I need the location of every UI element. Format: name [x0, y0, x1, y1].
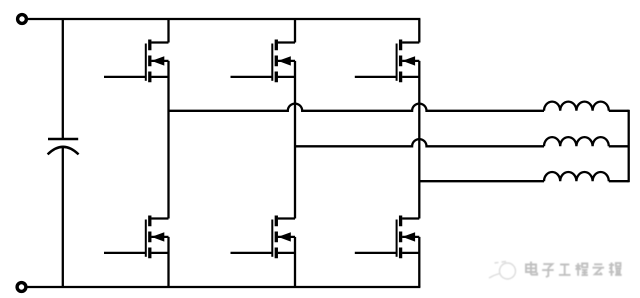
wire L2 to star point — [609, 145, 629, 147]
transistor Q5 (phase B low-side NMOS) — [231, 216, 296, 259]
inductor L2 (phase B winding) — [544, 137, 609, 146]
capacitor C1 (DC bus, polarized) — [48, 139, 79, 154]
wire phase B output (with crossover hop at leg C) — [295, 139, 544, 146]
wire star point (neutral) — [628, 110, 630, 182]
wire Q4 source to bottom rail — [167, 237, 169, 287]
wire Q5 source to bottom rail — [294, 237, 296, 287]
wire phase A leg (Q1 source to Q4 drain) — [167, 61, 169, 219]
wire phase C output — [419, 180, 544, 182]
wire capacitor top lead — [62, 19, 64, 138]
wire Q6 source to bottom rail — [418, 237, 420, 287]
transistor Q4 (phase A low-side NMOS) — [104, 216, 169, 259]
wire L3 to star point — [609, 180, 629, 182]
wire phase C leg (Q3 source to Q6 drain) — [418, 61, 420, 219]
glyph 工 — [559, 265, 571, 275]
glyph 程 — [575, 263, 588, 276]
inductor L3 (phase C winding) — [544, 172, 609, 181]
transistor Q2 (phase B high-side NMOS) — [231, 40, 296, 83]
transistor Q6 (phase C low-side NMOS) — [355, 216, 420, 259]
wire top DC+ rail — [28, 18, 421, 20]
watermark logo (EE Times globe) — [489, 262, 516, 280]
glyph 电 — [526, 262, 537, 275]
glyph 子 — [542, 264, 554, 277]
wire Q2 drain to top rail — [294, 19, 296, 43]
watermark text 电子工程专辑 — [526, 262, 622, 278]
terminal J1 (DC+ input) — [18, 15, 27, 24]
transistor Q3 (phase C high-side NMOS) — [355, 40, 420, 83]
wire bottom DC- rail — [27, 286, 420, 288]
transistor Q1 (phase A high-side NMOS) — [104, 40, 169, 83]
terminal J2 (DC- input) — [17, 283, 26, 292]
glyph 辑 — [609, 263, 622, 276]
wire phase B leg (Q2 source to Q5 drain) — [294, 61, 296, 219]
wire L1 to star point — [609, 110, 629, 112]
wire Q1 drain to top rail — [167, 19, 169, 43]
inductor L1 (phase A winding) — [544, 102, 609, 111]
wire Q3 drain to top rail — [418, 19, 420, 43]
glyph 专 — [593, 264, 605, 275]
wire phase A output (with crossover hops at legs B and C) — [169, 104, 545, 111]
wire capacitor bottom lead — [62, 148, 64, 287]
